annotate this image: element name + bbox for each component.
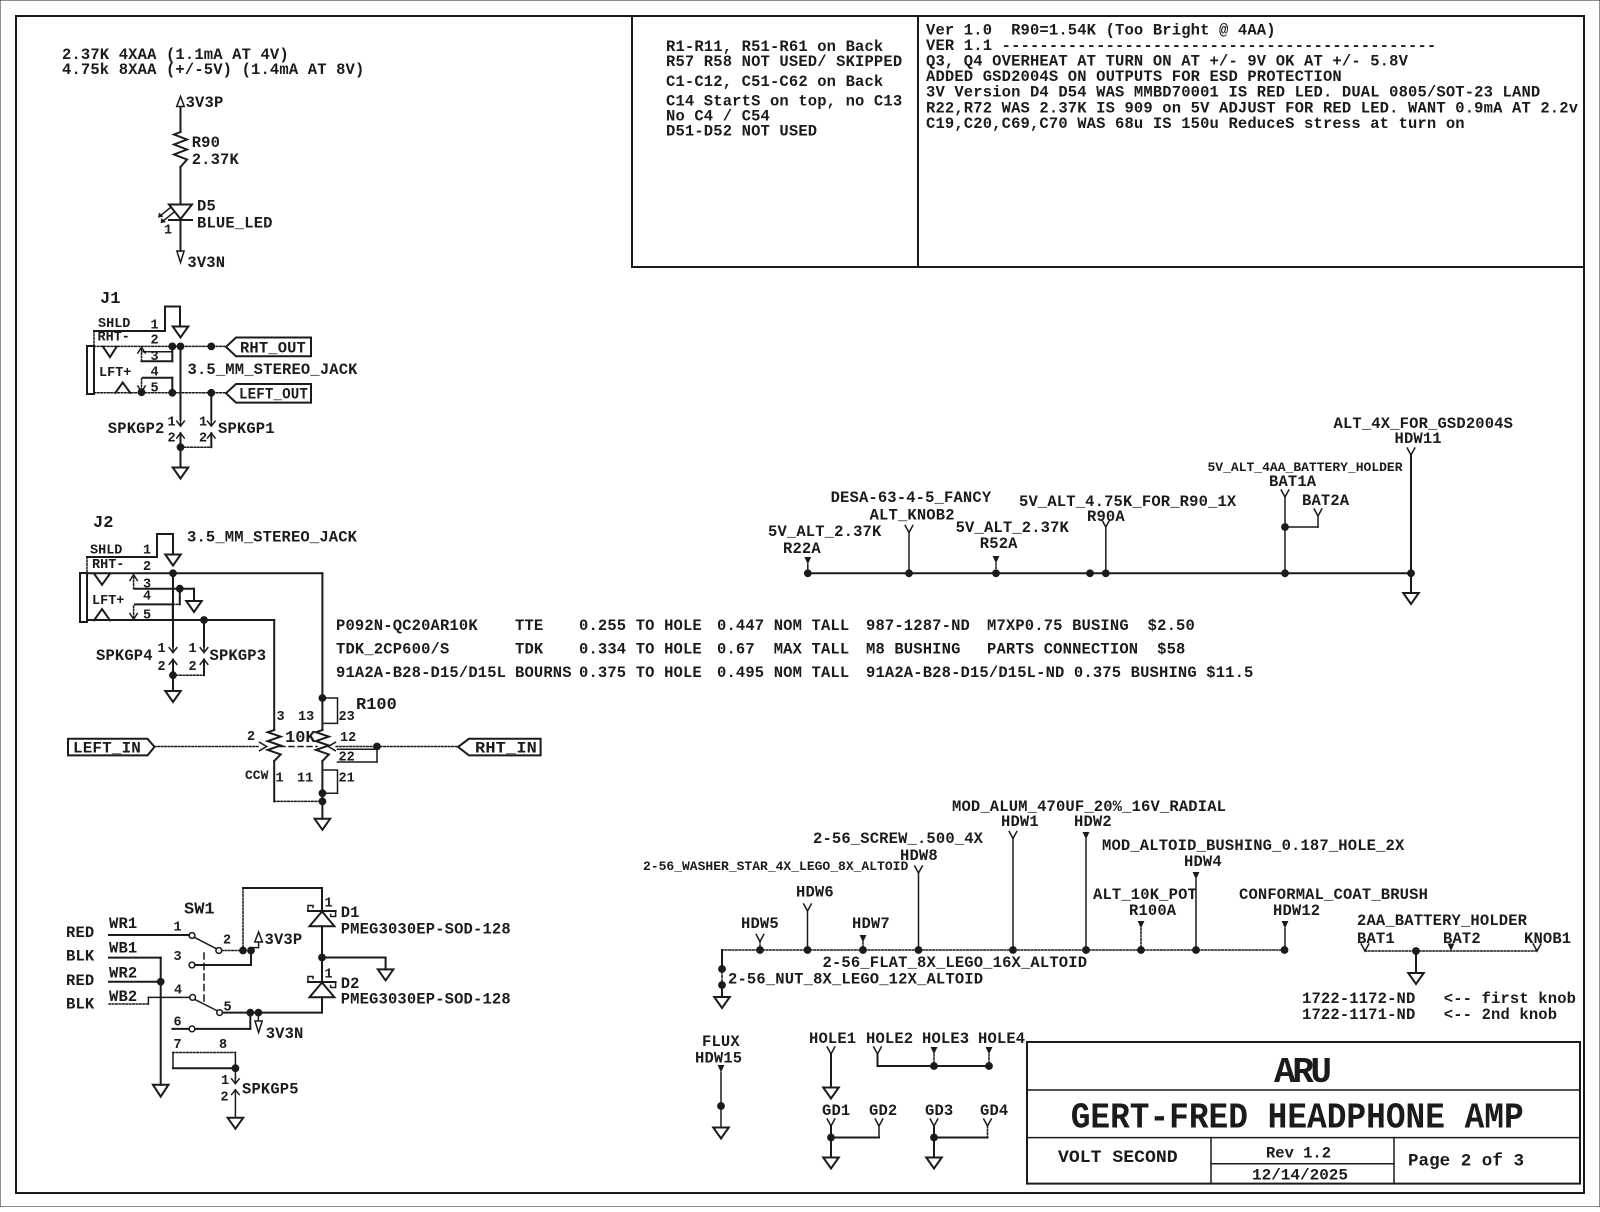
svg-text:DESA-63-4-5_FANCY: DESA-63-4-5_FANCY: [831, 489, 992, 507]
svg-text:22: 22: [339, 751, 355, 766]
SW1 pin5 contact: [217, 1010, 223, 1016]
svg-text:SHLD: SHLD: [90, 544, 122, 559]
wire mid to ground: [322, 958, 386, 970]
svg-text:13: 13: [298, 710, 314, 725]
ground at FLUX: [713, 1128, 729, 1139]
svg-text:5V_ALT_2.37K: 5V_ALT_2.37K: [768, 523, 882, 541]
wire RHT net J1 pin2: [94, 345, 226, 347]
title block outline: [1027, 1042, 1580, 1184]
SW1 pin2 contact: [216, 948, 222, 954]
wire SPKGP4 to ground: [172, 675, 174, 691]
svg-text:KNOB1: KNOB1: [1524, 930, 1571, 948]
power 3V3P: [177, 97, 185, 107]
svg-text:1: 1: [325, 897, 333, 912]
notes box outline: [631, 16, 633, 267]
junction R100 pin11/21: [319, 789, 327, 797]
svg-text:TDK: TDK: [515, 641, 544, 659]
ground at J2 pin3: [186, 601, 202, 612]
svg-text:HDW1: HDW1: [1001, 813, 1039, 831]
svg-text:4: 4: [174, 983, 182, 998]
svg-text:R90A: R90A: [1087, 508, 1125, 526]
svg-text:HDW4: HDW4: [1184, 853, 1222, 871]
svg-text:3V3P: 3V3P: [265, 931, 303, 949]
svg-text:2-56_SCREW_.500_4X: 2-56_SCREW_.500_4X: [813, 830, 984, 848]
junction HDW11 bus end: [1407, 569, 1415, 577]
wire J2 pin4: [135, 603, 173, 605]
wire RHT_IN net J2 pin2: [87, 572, 322, 574]
svg-text:BLK: BLK: [66, 948, 95, 966]
svg-text:23: 23: [339, 710, 355, 725]
svg-text:SPKGP1: SPKGP1: [218, 420, 275, 438]
ground at GD3: [926, 1158, 942, 1169]
wire BAT1A to alt bus: [1284, 527, 1286, 573]
hdw bus wire: [722, 949, 1285, 951]
svg-text:RHT_OUT: RHT_OUT: [240, 339, 306, 357]
junction SW1 pin8: [232, 1064, 240, 1072]
svg-text:987-1287-ND: 987-1287-ND: [866, 617, 970, 635]
svg-text:PMEG3030EP-SOD-128: PMEG3030EP-SOD-128: [341, 991, 511, 1009]
svg-text:BOURNS: BOURNS: [515, 664, 572, 682]
SW1 pin3 contact: [189, 962, 195, 968]
wire J1 pin5 to SPKGP1: [210, 393, 212, 420]
J1 pin 3 switch arrow: [141, 350, 143, 362]
svg-text:WR2: WR2: [109, 964, 137, 982]
connector SPKGP4 pin1 arrow: [169, 648, 177, 653]
ground at J1 pin1: [173, 327, 189, 338]
svg-text:HDW15: HDW15: [695, 1050, 742, 1068]
svg-text:LFT+: LFT+: [99, 366, 131, 381]
svg-text:4.75k 8XAA (+/-5V) (1.4mA AT 8: 4.75k 8XAA (+/-5V) (1.4mA AT 8V): [62, 61, 364, 79]
svg-text:GERT-FRED HEADPHONE AMP: GERT-FRED HEADPHONE AMP: [1071, 1097, 1524, 1138]
junction R100 pin22: [373, 743, 381, 751]
J1 tip contact: [103, 347, 117, 357]
svg-text:RHT_IN: RHT_IN: [475, 739, 537, 757]
svg-text:8: 8: [219, 1038, 227, 1053]
svg-text:LFT+: LFT+: [92, 594, 124, 609]
wire R100 to ground: [321, 793, 323, 819]
wire battery holder bus: [1365, 950, 1537, 952]
svg-text:D5: D5: [197, 198, 216, 216]
svg-text:2: 2: [199, 432, 207, 447]
svg-text:HOLE2: HOLE2: [866, 1030, 913, 1048]
J1 pin 5 box: [143, 377, 172, 379]
diode D1: [308, 910, 336, 912]
svg-text:SPKGP2: SPKGP2: [108, 420, 165, 438]
junction HOLE4: [985, 1062, 993, 1070]
connector SPKGP2 pin2 arrow: [177, 433, 185, 438]
svg-text:0.447 NOM TALL: 0.447 NOM TALL: [717, 617, 849, 635]
svg-text:1: 1: [199, 416, 207, 431]
SW1 lever 4-5: [195, 1000, 217, 1011]
wire alt bus to ground: [1410, 573, 1412, 593]
wire GD2 to GD1: [831, 1137, 879, 1139]
svg-text:GD1: GD1: [822, 1102, 850, 1120]
svg-text:VOLT SECOND: VOLT SECOND: [1058, 1148, 1178, 1168]
junction J1 pin2 c: [207, 343, 215, 351]
connector SPKGP4 pin2 arrow: [169, 660, 177, 665]
J1 jack sleeve: [93, 331, 95, 346]
wire LEFT net J1 pin5: [94, 392, 226, 394]
connector SPKGP1 pin2 arrow: [208, 433, 216, 438]
J2 pin 3 switch arrow: [133, 577, 135, 589]
connector SPKGP2 pin1 arrow: [177, 421, 185, 426]
svg-text:M8 BUSHING: M8 BUSHING: [866, 641, 961, 659]
svg-text:LEFT_OUT: LEFT_OUT: [239, 386, 308, 404]
svg-text:12: 12: [340, 731, 356, 746]
svg-text:GD2: GD2: [869, 1102, 897, 1120]
svg-text:3: 3: [174, 950, 182, 965]
svg-text:P092N-QC20AR10K: P092N-QC20AR10K: [336, 617, 478, 635]
junction SW1 pin2 a: [239, 947, 247, 955]
svg-text:TTE: TTE: [515, 617, 543, 635]
svg-text:SW1: SW1: [184, 901, 215, 920]
hdw bus left drop: [721, 950, 723, 969]
net tag RHT_OUT: [226, 338, 311, 357]
svg-text:Page 2 of 3: Page 2 of 3: [1408, 1152, 1524, 1172]
wire SW1 pin6: [172, 1028, 189, 1030]
svg-text:1722-1171-ND <-- 2nd knob: 1722-1171-ND <-- 2nd knob: [1302, 1006, 1557, 1024]
svg-text:SPKGP4: SPKGP4: [96, 647, 153, 665]
svg-text:HOLE4: HOLE4: [978, 1030, 1025, 1048]
power 3V3N: [177, 251, 184, 263]
SW1 coupler dashed: [203, 953, 205, 1005]
svg-text:WB1: WB1: [109, 940, 137, 958]
wire WR2: [109, 981, 161, 983]
ground at D1 D2 mid: [378, 969, 394, 980]
svg-text:3V3N: 3V3N: [266, 1025, 304, 1043]
wire RHT net down to R100: [321, 573, 323, 698]
SW1 pin6 contact: [189, 1026, 195, 1032]
svg-text:2AA_BATTERY_HOLDER: 2AA_BATTERY_HOLDER: [1357, 912, 1528, 930]
svg-text:3V3P: 3V3P: [186, 94, 224, 112]
ground at alt bus: [1403, 593, 1419, 604]
net tag LEFT_OUT: [226, 384, 311, 403]
svg-text:12/14/2025: 12/14/2025: [1252, 1167, 1348, 1185]
svg-text:RED: RED: [66, 924, 94, 942]
svg-text:2: 2: [189, 660, 197, 675]
ground at SPKGP3/4: [165, 691, 181, 702]
svg-text:GD3: GD3: [925, 1102, 953, 1120]
svg-text:BLK: BLK: [66, 996, 95, 1014]
junction SW1 pin5 b: [255, 1009, 263, 1017]
connector SPKGP5 pin1 arrow: [234, 1068, 236, 1077]
wire SPKGP2 to ground: [180, 447, 182, 467]
svg-text:1: 1: [174, 921, 182, 936]
junction R100 pin13/23: [319, 694, 327, 702]
ground at SPKGP1/2: [173, 468, 189, 479]
wire LEFT_IN net J2 pin5: [87, 619, 274, 621]
svg-text:2-56_WASHER_STAR_4X_LEGO_8X_AL: 2-56_WASHER_STAR_4X_LEGO_8X_ALTOID: [643, 859, 908, 874]
ground at hdw bus: [714, 997, 730, 1008]
R100 left gang lower lead: [273, 761, 275, 801]
R100 pin 22 loop: [338, 748, 378, 750]
svg-text:1: 1: [189, 642, 197, 657]
power 3V3N at SW1: [257, 1013, 259, 1021]
svg-text:PARTS CONNECTION $58: PARTS CONNECTION $58: [987, 641, 1185, 659]
wire WR1: [109, 934, 189, 936]
R100 left gang resistor: [268, 730, 281, 761]
svg-text:HDW6: HDW6: [796, 884, 834, 902]
R100 wiper arrow right: [328, 742, 335, 750]
J2 pin 3 wire to ground: [135, 588, 194, 590]
alt bus wire: [808, 572, 1411, 574]
svg-text:HDW2: HDW2: [1074, 813, 1112, 831]
svg-text:3: 3: [277, 710, 285, 725]
svg-text:D1: D1: [341, 904, 360, 922]
junction D1 D2 mid: [318, 954, 326, 962]
svg-text:R90: R90: [192, 134, 220, 152]
junction J2 pin3/pin4: [176, 585, 184, 593]
LED D5: [169, 205, 192, 220]
J1 ring contact: [115, 383, 130, 394]
svg-text:GD4: GD4: [980, 1102, 1008, 1120]
junction hdw bus right end: [1281, 946, 1289, 954]
junction flux: [717, 1102, 725, 1110]
svg-text:HOLE1: HOLE1: [809, 1030, 856, 1048]
J2 pin 1 SHLD wire: [87, 556, 157, 558]
wire R90 to D5: [180, 167, 182, 204]
wire D5 to 3V3N: [180, 220, 182, 251]
svg-text:11: 11: [297, 772, 313, 787]
svg-text:0.67 MAX TALL: 0.67 MAX TALL: [717, 641, 849, 659]
svg-text:5: 5: [151, 381, 159, 396]
SW1 pin1 contact: [189, 933, 195, 939]
connector SPKGP3 pin1 arrow: [200, 648, 208, 653]
svg-text:C1-C12, C51-C62 on Back: C1-C12, C51-C62 on Back: [666, 73, 883, 91]
svg-text:91A2A-B28-D15/D15L-ND 0.375 BU: 91A2A-B28-D15/D15L-ND 0.375 BUSHING $11.…: [866, 664, 1254, 682]
svg-text:HDW8: HDW8: [900, 847, 938, 865]
svg-text:0.255 TO HOLE: 0.255 TO HOLE: [579, 617, 702, 635]
wire WB1: [109, 957, 161, 959]
wire LEFT_IN to R100: [155, 746, 259, 748]
R100 pin 23 loop: [322, 698, 337, 723]
ground at battery holder: [1408, 973, 1424, 984]
ground at GD1: [823, 1158, 839, 1169]
svg-text:1: 1: [164, 224, 172, 239]
svg-text:4: 4: [143, 589, 151, 604]
junction GD1: [827, 1134, 835, 1142]
wire RHT_IN to R100: [336, 746, 458, 748]
J1 pin 3 box: [143, 351, 172, 353]
wire HOLE2 to HOLE4: [878, 1065, 990, 1067]
junction SPKGP ground: [177, 443, 185, 451]
junction hdw nut a: [718, 965, 726, 973]
wire SPKGP1 to SPKGP2 tie: [181, 446, 212, 448]
svg-text:1: 1: [158, 642, 166, 657]
svg-text:CONFORMAL_COAT_BRUSH: CONFORMAL_COAT_BRUSH: [1239, 886, 1428, 904]
svg-text:1: 1: [168, 416, 176, 431]
wire SW1 pin2: [222, 950, 243, 952]
svg-text:0.334 TO HOLE: 0.334 TO HOLE: [579, 641, 702, 659]
R100 left gang wire from J2 pin5: [273, 620, 275, 730]
connector SPKGP5 pin2 arrow: [232, 1090, 240, 1095]
svg-text:R22A: R22A: [783, 540, 821, 558]
wire J2 pin2 to SPKGP4: [172, 573, 174, 646]
svg-text:C19,C20,C69,C70 WAS 68u IS 150: C19,C20,C69,C70 WAS 68u IS 150u ReduceS …: [926, 115, 1465, 133]
svg-text:6: 6: [174, 1016, 182, 1031]
ground at WB1/WR2: [153, 1085, 169, 1097]
junction J1 pin2 a: [168, 343, 176, 351]
svg-text:2: 2: [221, 1091, 229, 1106]
wire J2 pin5 to SPKGP3: [203, 620, 205, 647]
svg-text:3.5_MM_STEREO_JACK: 3.5_MM_STEREO_JACK: [188, 361, 359, 379]
svg-text:2-56_FLAT_8X_LEGO_16X_ALTOID: 2-56_FLAT_8X_LEGO_16X_ALTOID: [823, 954, 1088, 972]
svg-text:M7XP0.75 BUSING $2.50: M7XP0.75 BUSING $2.50: [987, 617, 1195, 635]
svg-text:2: 2: [168, 432, 176, 447]
junction SPKGP4 ground: [169, 671, 177, 679]
svg-text:BAT2A: BAT2A: [1302, 492, 1350, 510]
svg-text:D51-D52 NOT USED: D51-D52 NOT USED: [666, 123, 817, 141]
svg-text:WB2: WB2: [109, 988, 137, 1006]
svg-text:2: 2: [247, 730, 255, 745]
svg-text:RED: RED: [66, 972, 94, 990]
svg-text:WR1: WR1: [109, 915, 137, 933]
svg-text:HDW11: HDW11: [1395, 430, 1442, 448]
svg-text:HDW12: HDW12: [1273, 902, 1320, 920]
svg-text:3.5_MM_STEREO_JACK: 3.5_MM_STEREO_JACK: [187, 529, 358, 547]
svg-text:RHT-: RHT-: [98, 331, 130, 346]
svg-text:1: 1: [143, 544, 151, 559]
ground at SPKGP5: [228, 1118, 244, 1129]
wire SW1 pin3: [195, 964, 251, 966]
wire J1 pin1 to ground hook: [165, 307, 180, 332]
junction SW1 pin5 a: [246, 1009, 254, 1017]
svg-text:1: 1: [325, 968, 333, 983]
junction J1 pin5 b: [207, 389, 215, 397]
wire SW1 top to D1: [243, 888, 322, 911]
svg-text:2: 2: [223, 934, 231, 949]
svg-text:R100A: R100A: [1129, 902, 1177, 920]
junction J1 pin2 b: [177, 343, 185, 351]
svg-text:0.375 TO HOLE: 0.375 TO HOLE: [579, 664, 702, 682]
svg-text:FLUX: FLUX: [702, 1033, 740, 1051]
svg-text:5V_ALT_4.75K_FOR_R90_1X: 5V_ALT_4.75K_FOR_R90_1X: [1019, 493, 1237, 511]
svg-text:1: 1: [151, 318, 159, 333]
junction WB1 WR2: [157, 978, 165, 986]
svg-text:PMEG3030EP-SOD-128: PMEG3030EP-SOD-128: [341, 921, 511, 939]
svg-text:0.495 NOM TALL: 0.495 NOM TALL: [717, 664, 849, 682]
svg-text:SPKGP3: SPKGP3: [210, 647, 267, 665]
J1 pin 1 SHLD wire: [94, 330, 165, 332]
svg-text:J1: J1: [100, 290, 120, 309]
junction J1 pin5 a: [168, 389, 176, 397]
svg-text:SPKGP5: SPKGP5: [242, 1081, 299, 1099]
wire GD4 to GD3: [934, 1137, 988, 1139]
svg-text:J2: J2: [93, 514, 113, 533]
junction BAT1A BAT2A: [1281, 523, 1289, 531]
SW1 pin4 contact: [190, 995, 196, 1001]
SW1 lever 1-2: [194, 937, 216, 948]
svg-text:Rev 1.2: Rev 1.2: [1266, 1145, 1331, 1163]
svg-text:R57 R58 NOT USED/ SKIPPED: R57 R58 NOT USED/ SKIPPED: [666, 53, 902, 71]
power 3V3P at SW1: [255, 932, 263, 942]
svg-text:MOD_ALTOID_BUSHING_0.187_HOLE_: MOD_ALTOID_BUSHING_0.187_HOLE_2X: [1102, 837, 1405, 855]
resistor R90: [174, 132, 187, 167]
junction R100 bottom: [319, 798, 327, 806]
wire D1 to D2: [321, 926, 323, 982]
R100 gang coupling dashed: [280, 746, 317, 748]
svg-text:1: 1: [276, 772, 284, 787]
J2 ring contact: [94, 609, 110, 620]
junction alt bus: [1086, 569, 1094, 577]
svg-text:HDW7: HDW7: [852, 915, 890, 933]
connector SPKGP1 pin1 arrow: [208, 421, 216, 426]
svg-text:R100: R100: [356, 696, 397, 715]
svg-text:5: 5: [143, 609, 151, 624]
J2 pin 5 box: [172, 604, 174, 620]
ground at J2 pin1: [165, 555, 181, 566]
junction hdw nut b: [718, 981, 726, 989]
junction battery ground: [1412, 947, 1420, 955]
J2 jack sleeve: [86, 557, 88, 573]
J2 pin 5 switch arrow: [133, 606, 135, 618]
svg-text:3: 3: [151, 350, 159, 365]
svg-text:1: 1: [221, 1074, 229, 1089]
wire SPKGP3 to SPKGP4 tie: [173, 674, 204, 676]
wire J2 pin1 to ground hook: [157, 534, 173, 557]
svg-text:ARU: ARU: [1274, 1052, 1332, 1093]
svg-text:LEFT_IN: LEFT_IN: [73, 739, 141, 757]
svg-text:R52A: R52A: [980, 535, 1018, 553]
diode D2: [308, 981, 336, 983]
junction HOLE3: [930, 1062, 938, 1070]
net tag RHT_IN: [458, 739, 541, 756]
ground at R100: [315, 819, 331, 830]
J1 pin 5 switch arrow: [141, 379, 143, 391]
R100 right gang lower lead: [321, 761, 323, 793]
svg-text:2-56_NUT_8X_LEGO_12X_ALTOID: 2-56_NUT_8X_LEGO_12X_ALTOID: [728, 971, 983, 989]
junction J2 pin2: [169, 569, 177, 577]
wire 3V3P to R90: [180, 107, 182, 132]
wire SW1 pin5: [223, 1012, 323, 1014]
wire battery to ground: [1415, 951, 1417, 973]
svg-text:7: 7: [174, 1038, 182, 1053]
R100 right gang resistor: [321, 698, 323, 730]
svg-text:2: 2: [158, 660, 166, 675]
svg-text:HOLE3: HOLE3: [922, 1030, 969, 1048]
junction J2 pin5: [200, 616, 208, 624]
wire D2 to SW1 pin5: [321, 997, 323, 1012]
svg-text:21: 21: [339, 772, 355, 787]
svg-text:91A2A-B28-D15/D15L: 91A2A-B28-D15/D15L: [336, 664, 506, 682]
svg-text:ALT_KNOB2: ALT_KNOB2: [870, 507, 955, 525]
connector SPKGP3 pin2 arrow: [200, 660, 208, 665]
svg-text:10K: 10K: [285, 729, 316, 748]
wire R100 bottom tie: [274, 800, 322, 802]
svg-text:TDK_2CP600/S: TDK_2CP600/S: [336, 641, 449, 659]
svg-text:2.37K: 2.37K: [192, 151, 240, 169]
svg-text:BLUE_LED: BLUE_LED: [197, 215, 273, 233]
J2 tip contact: [94, 574, 110, 585]
R100 pin 21 loop: [322, 770, 337, 793]
R100 wiper arrow left: [260, 742, 267, 750]
wire WB2: [109, 1003, 148, 1005]
junction SW1 pin2 b: [247, 947, 255, 955]
junction GD3: [930, 1134, 938, 1142]
wire J1 pin2 to SPKGP2: [180, 346, 182, 419]
svg-text:CCW: CCW: [245, 768, 269, 783]
net tag LEFT_IN: [68, 739, 155, 756]
svg-text:RHT-: RHT-: [92, 558, 124, 573]
svg-text:HDW5: HDW5: [741, 915, 779, 933]
wire SW1 top riser: [242, 888, 244, 951]
svg-text:3V3N: 3V3N: [187, 254, 225, 272]
ground at HOLE1: [823, 1088, 839, 1099]
svg-text:BAT1A: BAT1A: [1269, 473, 1317, 491]
